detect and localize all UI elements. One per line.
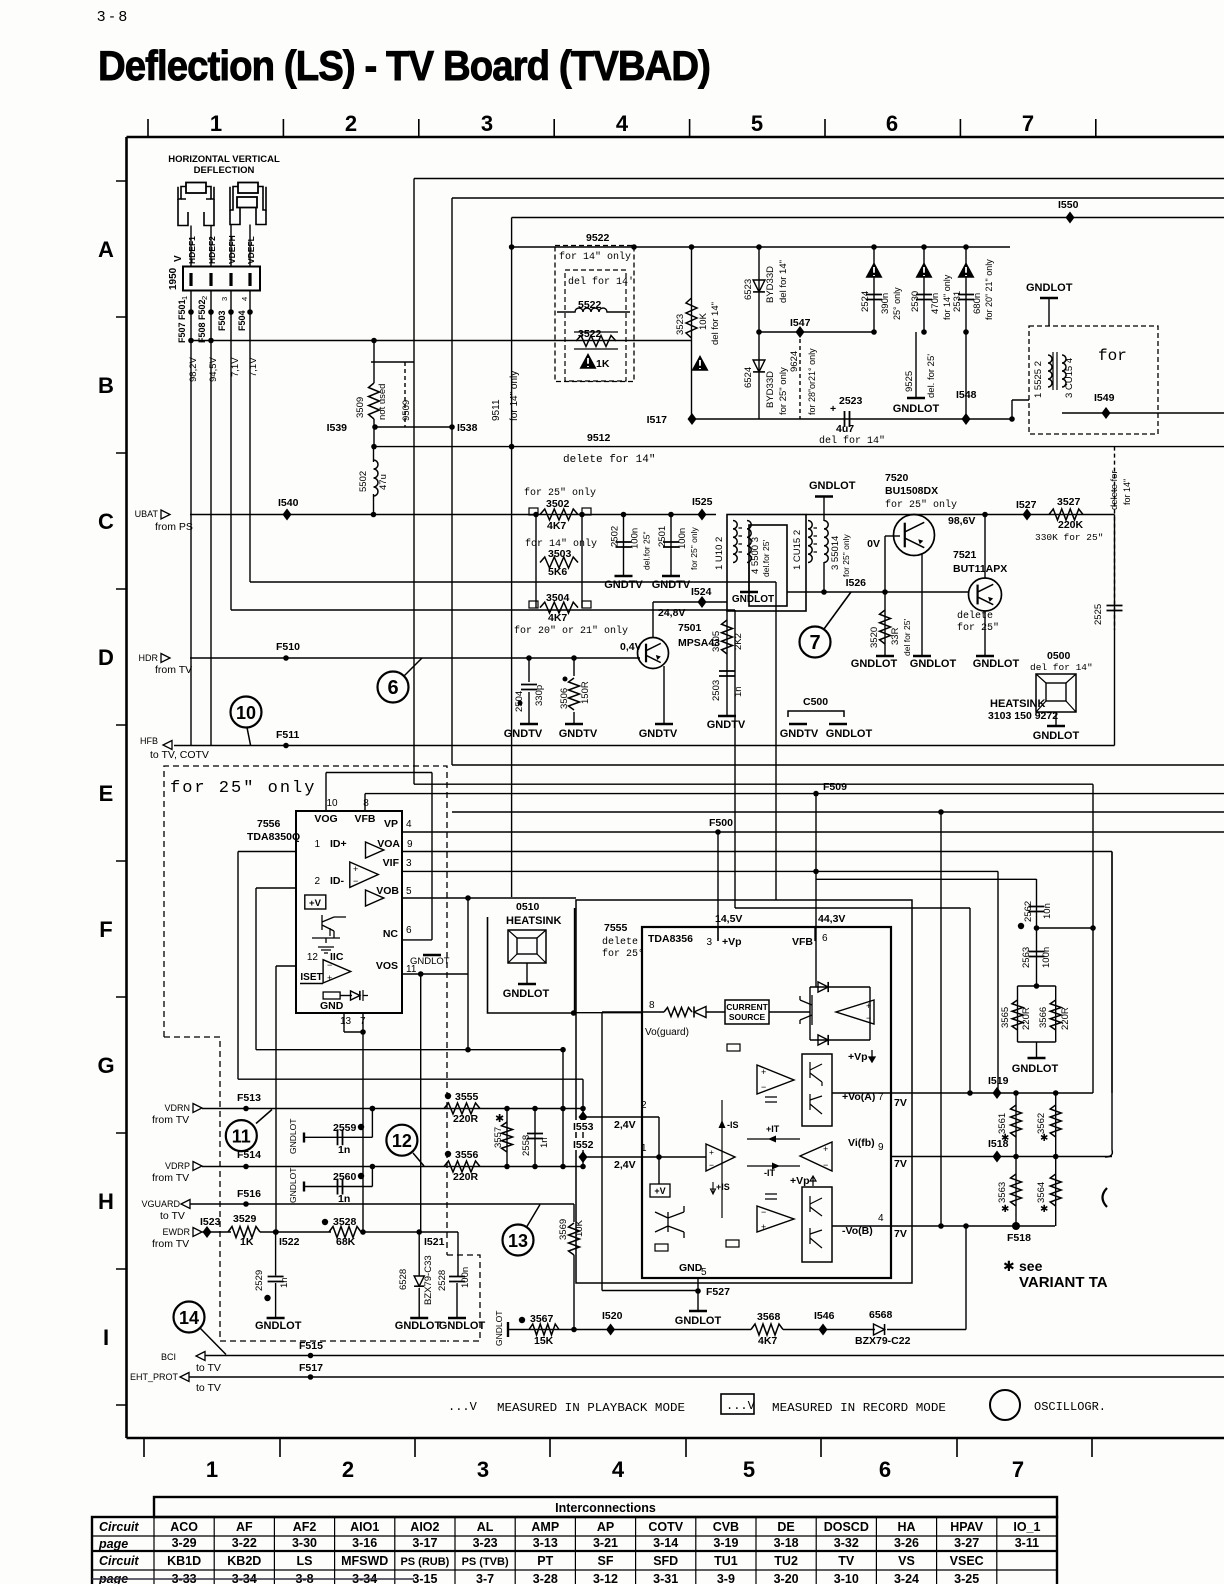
svg-text:TDA8350Q: TDA8350Q bbox=[247, 831, 300, 843]
svg-text:VS: VS bbox=[898, 1554, 915, 1568]
svg-text:4 5500 3: 4 5500 3 bbox=[750, 537, 761, 574]
svg-text:GNDLOT: GNDLOT bbox=[893, 403, 940, 415]
svg-text:GNDTV: GNDTV bbox=[652, 579, 691, 591]
svg-text:3562: 3562 bbox=[1036, 1113, 1047, 1134]
svg-text:3561: 3561 bbox=[997, 1113, 1008, 1134]
svg-text:44,3V: 44,3V bbox=[818, 913, 845, 925]
svg-text:2,4V: 2,4V bbox=[614, 1119, 636, 1131]
svg-text:GNDLOT: GNDLOT bbox=[675, 1315, 722, 1327]
svg-text:del for 14": del for 14" bbox=[710, 302, 721, 345]
svg-text:B: B bbox=[98, 373, 114, 398]
svg-text:-IS: -IS bbox=[727, 1120, 739, 1130]
svg-text:7V: 7V bbox=[894, 1097, 907, 1109]
svg-text:GNDLOT: GNDLOT bbox=[255, 1320, 302, 1332]
svg-text:5K6: 5K6 bbox=[548, 566, 567, 578]
svg-text:TU2: TU2 bbox=[774, 1554, 798, 1568]
svg-text:F511: F511 bbox=[276, 729, 300, 741]
svg-text:13: 13 bbox=[508, 1231, 528, 1251]
svg-text:BYD33D: BYD33D bbox=[765, 371, 776, 408]
svg-text:F510: F510 bbox=[276, 641, 300, 653]
svg-text:GNDLOT: GNDLOT bbox=[1033, 730, 1080, 742]
svg-text:2K2: 2K2 bbox=[733, 633, 744, 650]
svg-text:3 CU15 4: 3 CU15 4 bbox=[1064, 358, 1075, 398]
svg-text:1 U10 2: 1 U10 2 bbox=[714, 537, 725, 570]
svg-text:C500: C500 bbox=[803, 696, 828, 708]
svg-text:CURRENT: CURRENT bbox=[726, 1002, 768, 1012]
svg-text:VOG: VOG bbox=[314, 813, 337, 825]
svg-text:6528: 6528 bbox=[398, 1269, 409, 1290]
svg-text:−: − bbox=[327, 960, 332, 970]
svg-text:F: F bbox=[99, 917, 112, 942]
svg-text:3: 3 bbox=[481, 111, 493, 136]
svg-text:GNDLOT: GNDLOT bbox=[732, 594, 774, 605]
svg-text:3-27: 3-27 bbox=[954, 1536, 979, 1550]
svg-text:3527: 3527 bbox=[1057, 496, 1081, 508]
svg-text:MFSWD: MFSWD bbox=[341, 1554, 388, 1568]
svg-text:✱: ✱ bbox=[495, 1113, 504, 1125]
svg-text:for 25°: for 25° bbox=[602, 948, 644, 960]
svg-text:F504: F504 bbox=[237, 310, 247, 331]
svg-text:3-24: 3-24 bbox=[894, 1572, 919, 1584]
svg-text:330K for 25": 330K for 25" bbox=[1035, 532, 1103, 543]
svg-text:2559: 2559 bbox=[333, 1122, 357, 1134]
svg-text:GNDLOT: GNDLOT bbox=[395, 1320, 442, 1332]
svg-text:HA: HA bbox=[897, 1520, 915, 1534]
svg-text:I538: I538 bbox=[457, 422, 478, 434]
svg-text:GNDTV: GNDTV bbox=[707, 719, 746, 731]
svg-text:to TV: to TV bbox=[160, 1210, 185, 1222]
svg-text:+V: +V bbox=[309, 898, 322, 909]
svg-text:−: − bbox=[353, 876, 358, 886]
svg-text:del for 14": del for 14" bbox=[819, 435, 885, 447]
svg-text:10: 10 bbox=[326, 798, 338, 809]
svg-text:3503: 3503 bbox=[548, 548, 572, 560]
svg-text:SF: SF bbox=[598, 1554, 614, 1568]
svg-text:6: 6 bbox=[822, 933, 828, 944]
svg-text:9512: 9512 bbox=[587, 432, 611, 444]
svg-text:3 - 8: 3 - 8 bbox=[97, 8, 127, 25]
svg-text:ISET: ISET bbox=[300, 972, 322, 983]
svg-text:3563: 3563 bbox=[997, 1182, 1008, 1203]
svg-text:4: 4 bbox=[616, 111, 629, 136]
svg-text:3-25: 3-25 bbox=[954, 1572, 979, 1584]
svg-text:7: 7 bbox=[1022, 111, 1034, 136]
svg-text:94,5V: 94,5V bbox=[208, 357, 219, 382]
svg-text:✱: ✱ bbox=[1040, 1133, 1048, 1144]
svg-text:3-26: 3-26 bbox=[894, 1536, 919, 1550]
svg-text:2562: 2562 bbox=[1023, 901, 1034, 922]
svg-text:1950: 1950 bbox=[168, 267, 179, 290]
svg-text:CVB: CVB bbox=[713, 1520, 739, 1534]
svg-text:14,5V: 14,5V bbox=[715, 913, 742, 925]
svg-text:page: page bbox=[98, 1572, 128, 1584]
svg-text:F527: F527 bbox=[706, 1286, 730, 1298]
svg-text:I526: I526 bbox=[846, 577, 867, 589]
svg-text:13: 13 bbox=[340, 1016, 352, 1027]
svg-text:VFB: VFB bbox=[355, 813, 376, 825]
svg-text:F516: F516 bbox=[237, 1188, 261, 1200]
svg-text:delete for 14": delete for 14" bbox=[563, 454, 655, 466]
svg-text:5502: 5502 bbox=[358, 471, 369, 492]
svg-text:F507 F501: F507 F501 bbox=[177, 299, 187, 343]
svg-text:PS (TVB): PS (TVB) bbox=[462, 1556, 509, 1568]
svg-text:-Vo(B): -Vo(B) bbox=[842, 1225, 873, 1237]
svg-text:3565: 3565 bbox=[1000, 1007, 1011, 1028]
svg-text:F515: F515 bbox=[299, 1340, 323, 1352]
svg-text:for 14" only: for 14" only bbox=[509, 371, 520, 421]
svg-text:TU1: TU1 bbox=[714, 1554, 738, 1568]
svg-text:6568: 6568 bbox=[869, 1309, 893, 1321]
svg-text:SOURCE: SOURCE bbox=[729, 1012, 766, 1022]
svg-text:3520: 3520 bbox=[869, 627, 880, 648]
svg-text:for 25" only: for 25" only bbox=[885, 499, 957, 511]
svg-text:VOS: VOS bbox=[376, 960, 398, 972]
svg-text:7521: 7521 bbox=[953, 549, 977, 561]
svg-text:3-32: 3-32 bbox=[834, 1536, 859, 1550]
svg-text:AP: AP bbox=[597, 1520, 614, 1534]
svg-text:3502: 3502 bbox=[546, 498, 570, 510]
svg-text:3555: 3555 bbox=[455, 1091, 479, 1103]
svg-text:7520: 7520 bbox=[885, 472, 909, 484]
svg-text:BYD33D: BYD33D bbox=[765, 266, 776, 303]
svg-text:2: 2 bbox=[200, 296, 209, 300]
svg-text:from TV: from TV bbox=[155, 664, 192, 676]
svg-text:6: 6 bbox=[387, 677, 398, 699]
svg-text:I552: I552 bbox=[573, 1139, 594, 1151]
svg-text:I527: I527 bbox=[1016, 499, 1037, 511]
svg-text:2523: 2523 bbox=[839, 395, 863, 407]
svg-text:7V: 7V bbox=[894, 1228, 907, 1240]
svg-text:GNDLOT: GNDLOT bbox=[494, 1311, 504, 1346]
svg-text:2525: 2525 bbox=[1093, 604, 1104, 625]
svg-text:GNDLOT: GNDLOT bbox=[288, 1119, 298, 1154]
svg-text:✱: ✱ bbox=[1040, 1204, 1048, 1215]
svg-text:AF: AF bbox=[236, 1520, 253, 1534]
svg-text:3505: 3505 bbox=[711, 631, 722, 652]
svg-text:9: 9 bbox=[878, 1142, 884, 1153]
svg-text:+: + bbox=[830, 403, 836, 415]
svg-text:I540: I540 bbox=[278, 497, 299, 509]
svg-text:GNDLOT: GNDLOT bbox=[410, 956, 450, 967]
svg-text:3-30: 3-30 bbox=[292, 1536, 317, 1550]
svg-text:4K7: 4K7 bbox=[548, 612, 567, 624]
svg-text:3-18: 3-18 bbox=[774, 1536, 799, 1550]
svg-text:DE: DE bbox=[777, 1520, 794, 1534]
svg-text:3-15: 3-15 bbox=[412, 1572, 437, 1584]
svg-text:GNDLOT: GNDLOT bbox=[851, 658, 898, 670]
svg-text:GND: GND bbox=[320, 1000, 344, 1012]
svg-text:3-16: 3-16 bbox=[352, 1536, 377, 1550]
svg-text:HEATSINK: HEATSINK bbox=[506, 915, 561, 927]
svg-text:98,2V: 98,2V bbox=[188, 357, 199, 382]
svg-text:3-23: 3-23 bbox=[473, 1536, 498, 1550]
svg-text:VGUARD: VGUARD bbox=[141, 1199, 180, 1209]
svg-text:1: 1 bbox=[206, 1457, 218, 1482]
svg-text:1n: 1n bbox=[338, 1144, 350, 1156]
svg-text:A: A bbox=[98, 237, 114, 262]
svg-text:to TV: to TV bbox=[196, 1382, 221, 1394]
svg-text:−: − bbox=[761, 1082, 766, 1092]
svg-text:HFB: HFB bbox=[140, 736, 158, 746]
svg-text:−: − bbox=[709, 1160, 714, 1170]
svg-text:del for 14': del for 14' bbox=[568, 276, 634, 288]
svg-text:3: 3 bbox=[477, 1457, 489, 1482]
svg-text:3509: 3509 bbox=[355, 397, 366, 418]
svg-text:I550: I550 bbox=[1058, 199, 1079, 211]
svg-text:1 5525 2: 1 5525 2 bbox=[1033, 361, 1044, 398]
svg-text:AF2: AF2 bbox=[293, 1520, 317, 1534]
svg-text:3-11: 3-11 bbox=[1015, 1536, 1039, 1550]
svg-text:UBAT: UBAT bbox=[135, 509, 159, 519]
svg-text:VARIANT TA: VARIANT TA bbox=[1019, 1274, 1108, 1291]
svg-text:from TV: from TV bbox=[152, 1114, 189, 1126]
svg-text:EWDR: EWDR bbox=[163, 1227, 191, 1237]
svg-text:del for 14": del for 14" bbox=[778, 260, 789, 303]
svg-text:✱: ✱ bbox=[1001, 1204, 1009, 1215]
svg-text:3-21: 3-21 bbox=[593, 1536, 618, 1550]
svg-text:1: 1 bbox=[210, 111, 222, 136]
svg-text:+Vp: +Vp bbox=[722, 936, 742, 948]
svg-text:24,8V: 24,8V bbox=[658, 607, 685, 619]
svg-text:9624: 9624 bbox=[789, 351, 800, 372]
svg-text:3: 3 bbox=[706, 937, 712, 948]
svg-text:I549: I549 bbox=[1094, 392, 1115, 404]
svg-text:VP: VP bbox=[384, 818, 398, 830]
svg-text:+: + bbox=[823, 1144, 828, 1154]
svg-text:6: 6 bbox=[886, 111, 898, 136]
svg-text:220R: 220R bbox=[1021, 1007, 1032, 1030]
svg-text:F503: F503 bbox=[217, 310, 227, 331]
svg-text:I547: I547 bbox=[790, 317, 811, 329]
svg-text:for 14": for 14" bbox=[1122, 479, 1132, 505]
svg-text:220K: 220K bbox=[1058, 519, 1084, 531]
svg-text:not used: not used bbox=[377, 384, 388, 420]
svg-text:3-34: 3-34 bbox=[352, 1572, 377, 1584]
svg-text:KB2D: KB2D bbox=[227, 1554, 261, 1568]
svg-text:BZX79-C33: BZX79-C33 bbox=[423, 1255, 434, 1305]
svg-text:see: see bbox=[1019, 1258, 1043, 1274]
svg-text:3569: 3569 bbox=[558, 1219, 569, 1240]
svg-text:4: 4 bbox=[878, 1213, 884, 1224]
svg-text:VIF: VIF bbox=[383, 857, 400, 869]
svg-text:1: 1 bbox=[314, 839, 320, 850]
svg-text:7: 7 bbox=[809, 632, 820, 654]
svg-text:6: 6 bbox=[406, 925, 412, 936]
svg-text:GNDLOT: GNDLOT bbox=[910, 658, 957, 670]
svg-text:F509: F509 bbox=[823, 781, 847, 793]
svg-text:VDRN: VDRN bbox=[164, 1103, 190, 1113]
svg-text:4u7: 4u7 bbox=[836, 423, 854, 435]
svg-text:2503: 2503 bbox=[711, 680, 722, 701]
svg-text:GND: GND bbox=[679, 1262, 703, 1274]
svg-text:5: 5 bbox=[751, 111, 763, 136]
svg-text:for 20” 21" only: for 20” 21" only bbox=[984, 259, 994, 320]
svg-text:GNDLOT: GNDLOT bbox=[826, 728, 873, 740]
svg-text:from PS: from PS bbox=[155, 521, 193, 533]
svg-text:3-20: 3-20 bbox=[774, 1572, 799, 1584]
svg-text:3-14: 3-14 bbox=[653, 1536, 678, 1550]
svg-text:33R: 33R bbox=[890, 627, 901, 645]
svg-text:6: 6 bbox=[879, 1457, 891, 1482]
svg-text:I519: I519 bbox=[988, 1075, 1009, 1087]
svg-text:3-9: 3-9 bbox=[717, 1572, 735, 1584]
svg-text:3-34: 3-34 bbox=[232, 1572, 257, 1584]
svg-text:for 25": for 25" bbox=[957, 622, 999, 634]
svg-text:I525: I525 bbox=[692, 496, 713, 508]
svg-text:220R: 220R bbox=[1060, 1007, 1071, 1030]
svg-text:7501: 7501 bbox=[678, 622, 702, 634]
svg-text:G: G bbox=[97, 1053, 114, 1078]
svg-text:I517: I517 bbox=[647, 414, 668, 426]
svg-text:V: V bbox=[173, 255, 184, 262]
svg-text:DOSCD: DOSCD bbox=[824, 1520, 869, 1534]
svg-text:I548: I548 bbox=[956, 389, 977, 401]
svg-text:del.for 25': del.for 25' bbox=[761, 540, 771, 577]
svg-text:1n: 1n bbox=[338, 1193, 350, 1205]
svg-text:2529: 2529 bbox=[254, 1270, 265, 1291]
svg-text:LS: LS bbox=[297, 1554, 313, 1568]
svg-text:+IT: +IT bbox=[766, 1124, 780, 1134]
svg-text:10K: 10K bbox=[574, 1219, 585, 1237]
svg-text:9522: 9522 bbox=[586, 232, 610, 244]
svg-text:9: 9 bbox=[407, 839, 413, 850]
svg-text:100n: 100n bbox=[677, 528, 688, 549]
svg-text:1n: 1n bbox=[539, 1137, 550, 1148]
svg-text:KB1D: KB1D bbox=[167, 1554, 201, 1568]
svg-text:Circuit: Circuit bbox=[99, 1520, 139, 1534]
svg-text:GNDTV: GNDTV bbox=[604, 579, 643, 591]
svg-text:I: I bbox=[103, 1325, 109, 1350]
svg-text:0500: 0500 bbox=[1047, 650, 1071, 662]
svg-text:0510: 0510 bbox=[516, 901, 540, 913]
svg-text:I524: I524 bbox=[691, 586, 712, 598]
svg-text:VFB: VFB bbox=[792, 936, 813, 948]
svg-text:3-7: 3-7 bbox=[476, 1572, 494, 1584]
svg-text:del.for 25": del.for 25" bbox=[642, 532, 652, 570]
svg-text:BCI: BCI bbox=[161, 1352, 176, 1362]
svg-text:GNDLOT: GNDLOT bbox=[1026, 282, 1073, 294]
svg-text:3566: 3566 bbox=[1038, 1007, 1049, 1028]
svg-text:1K: 1K bbox=[240, 1236, 254, 1248]
svg-text:I521: I521 bbox=[424, 1236, 445, 1248]
svg-text:10n: 10n bbox=[1042, 903, 1053, 919]
svg-text:Vo(guard): Vo(guard) bbox=[645, 1027, 689, 1038]
svg-text:100n: 100n bbox=[460, 1267, 471, 1288]
svg-text:VDRP: VDRP bbox=[165, 1161, 190, 1171]
svg-text:2: 2 bbox=[314, 876, 320, 887]
svg-text:3 55014: 3 55014 bbox=[830, 536, 841, 570]
svg-text:+: + bbox=[353, 864, 358, 874]
svg-text:3557: 3557 bbox=[493, 1127, 504, 1148]
svg-text:3567: 3567 bbox=[530, 1313, 554, 1325]
svg-text:HORIZONTAL VERTICAL: HORIZONTAL VERTICAL bbox=[168, 154, 280, 165]
svg-text:F500: F500 bbox=[709, 817, 733, 829]
svg-text:MEASURED IN RECORD MODE: MEASURED IN RECORD MODE bbox=[772, 1401, 946, 1415]
svg-text:3523: 3523 bbox=[675, 314, 686, 335]
svg-text:3-22: 3-22 bbox=[232, 1536, 257, 1550]
svg-text:GNDLOT: GNDLOT bbox=[1012, 1063, 1059, 1075]
svg-text:DEFLECTION: DEFLECTION bbox=[194, 165, 255, 176]
svg-text:14: 14 bbox=[179, 1308, 199, 1328]
svg-text:BUT11APX: BUT11APX bbox=[953, 563, 1007, 575]
svg-text:F518: F518 bbox=[1007, 1232, 1031, 1244]
svg-text:15K: 15K bbox=[534, 1335, 554, 1347]
svg-text:680n: 680n bbox=[972, 293, 983, 314]
svg-text:8: 8 bbox=[649, 1000, 655, 1011]
svg-text:COTV: COTV bbox=[648, 1520, 683, 1534]
svg-text:2563: 2563 bbox=[1021, 947, 1032, 968]
svg-text:3103 150 9272: 3103 150 9272 bbox=[988, 710, 1058, 722]
svg-text:GNDLOT: GNDLOT bbox=[973, 658, 1020, 670]
svg-text:-IT: -IT bbox=[764, 1168, 775, 1178]
svg-text:AL: AL bbox=[477, 1520, 494, 1534]
svg-text:−: − bbox=[823, 1160, 828, 1170]
svg-text:BU1508DX: BU1508DX bbox=[885, 485, 938, 497]
svg-text:12: 12 bbox=[307, 952, 319, 963]
svg-text:C: C bbox=[98, 509, 114, 534]
svg-text:25° only: 25° only bbox=[892, 287, 902, 320]
svg-text:F514: F514 bbox=[237, 1149, 261, 1161]
svg-text:GNDLOT: GNDLOT bbox=[288, 1168, 298, 1203]
svg-text:9525: 9525 bbox=[904, 371, 915, 392]
svg-text:1: 1 bbox=[180, 296, 189, 300]
svg-text:2: 2 bbox=[342, 1457, 354, 1482]
svg-text:TDA8356: TDA8356 bbox=[648, 933, 693, 945]
svg-text:100n: 100n bbox=[1041, 947, 1052, 968]
svg-text:HDEF2: HDEF2 bbox=[207, 236, 217, 264]
svg-text:3556: 3556 bbox=[455, 1149, 479, 1161]
svg-text:AIO2: AIO2 bbox=[410, 1520, 439, 1534]
svg-text:+: + bbox=[327, 973, 332, 983]
svg-text:3-19: 3-19 bbox=[713, 1536, 738, 1550]
svg-text:VOB: VOB bbox=[376, 885, 399, 897]
svg-text:4: 4 bbox=[612, 1457, 625, 1482]
svg-text:Vi(fb): Vi(fb) bbox=[848, 1137, 875, 1149]
svg-text:11: 11 bbox=[232, 1127, 251, 1147]
svg-text:5: 5 bbox=[743, 1457, 755, 1482]
svg-text:SFD: SFD bbox=[653, 1554, 678, 1568]
svg-text:100n: 100n bbox=[630, 528, 641, 549]
svg-text:BZX79-C22: BZX79-C22 bbox=[855, 1335, 911, 1347]
svg-text:I520: I520 bbox=[602, 1310, 623, 1322]
svg-text:3529: 3529 bbox=[233, 1213, 257, 1225]
svg-text:7V: 7V bbox=[894, 1158, 907, 1170]
svg-text:for: for bbox=[1098, 347, 1127, 365]
svg-text:1n: 1n bbox=[733, 686, 744, 697]
svg-text:3-17: 3-17 bbox=[412, 1536, 437, 1550]
svg-text:+V: +V bbox=[654, 1186, 665, 1196]
svg-text:0V: 0V bbox=[867, 538, 880, 550]
svg-text:3-8: 3-8 bbox=[295, 1572, 313, 1584]
svg-text:Interconnections: Interconnections bbox=[555, 1501, 656, 1515]
svg-text:Circuit: Circuit bbox=[99, 1554, 139, 1568]
svg-text:F513: F513 bbox=[237, 1092, 261, 1104]
svg-text:E: E bbox=[99, 781, 114, 806]
svg-text:330p: 330p bbox=[534, 685, 545, 706]
svg-text:+Vp: +Vp bbox=[790, 1175, 810, 1187]
svg-text:68K: 68K bbox=[336, 1236, 356, 1248]
svg-text:F508 F502: F508 F502 bbox=[197, 299, 207, 343]
svg-text:del for 25': del for 25' bbox=[902, 619, 912, 656]
svg-text:7556: 7556 bbox=[257, 818, 281, 830]
svg-text:3-29: 3-29 bbox=[172, 1536, 197, 1550]
svg-text:I546: I546 bbox=[814, 1310, 835, 1322]
svg-text:...V: ...V bbox=[448, 1400, 478, 1414]
svg-text:+IS: +IS bbox=[716, 1182, 730, 1192]
svg-text:4: 4 bbox=[240, 297, 249, 301]
svg-text:GNDTV: GNDTV bbox=[639, 728, 678, 740]
svg-text:Deflection (LS) - TV Board (TV: Deflection (LS) - TV Board (TVBAD) bbox=[98, 42, 710, 89]
